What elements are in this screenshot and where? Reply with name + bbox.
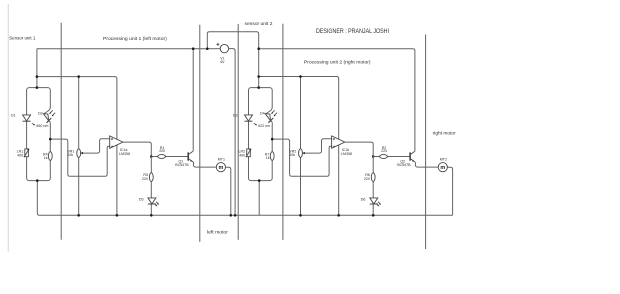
photoresistor LR1 400 bbox=[24, 149, 29, 157]
wire sensor-2 vertical bus bbox=[282, 24, 284, 240]
svg-text:Processing unit 2 (right motor: Processing unit 2 (right motor) bbox=[304, 59, 371, 64]
wire battery - lead to ground bus bbox=[229, 49, 236, 216]
svg-text:10k: 10k bbox=[67, 153, 73, 157]
svg-text:m: m bbox=[219, 165, 224, 171]
wire sensor-1 divider tap to op-amp inverting input bbox=[50, 139, 109, 176]
svg-text:LM358: LM358 bbox=[119, 152, 130, 156]
wire Q1 collector to rail bbox=[192, 49, 194, 51]
wire battery bypass loop bbox=[207, 32, 258, 88]
svg-text:D1: D1 bbox=[11, 114, 16, 118]
resistor R5 220 bbox=[149, 173, 153, 182]
LED D6 bbox=[370, 198, 381, 206]
wire VR1 wiper to op-amp non-inverting input bbox=[84, 139, 110, 153]
op-amp IC1b LM358 bbox=[332, 136, 345, 148]
wire op-amp 1 output bbox=[123, 142, 151, 156]
junction battery + / rail bbox=[206, 47, 209, 50]
photoresistor LR2 400 bbox=[246, 149, 251, 157]
svg-text:400: 400 bbox=[17, 153, 23, 157]
sheet border (left edge) bbox=[7, 4, 9, 252]
potentiometer VR2 10k bbox=[299, 149, 306, 158]
svg-text:Processing unit 1 (left motor): Processing unit 1 (left motor) bbox=[103, 36, 167, 41]
junction MT1 return / ground bus bbox=[230, 214, 233, 217]
sensor unit 2 loop bbox=[249, 88, 273, 181]
wire indicator branch R5-D5 bbox=[150, 157, 152, 216]
svg-text:1k: 1k bbox=[266, 156, 270, 160]
svg-text:BC547B: BC547B bbox=[175, 163, 189, 167]
op-amp IC1a LM358 bbox=[110, 136, 123, 148]
junction VR1 top / rail2 bbox=[77, 75, 80, 78]
svg-text:MT1: MT1 bbox=[218, 157, 225, 161]
junction op-amp1 V- / ground bus bbox=[116, 214, 119, 217]
junction D6 / ground bus bbox=[372, 214, 375, 217]
wire sensor-2 bottom drop to ground bus bbox=[258, 181, 260, 216]
wire processing-2 supply rail and op-amp V+ drop bbox=[259, 77, 339, 216]
junction VR2 top / rail2 bbox=[299, 75, 302, 78]
svg-text:D2: D2 bbox=[38, 112, 43, 116]
svg-text:622 nm: 622 nm bbox=[258, 124, 270, 128]
wire sensor-1 supply drop bbox=[36, 49, 38, 88]
wire left motor terminal B bbox=[237, 24, 239, 240]
svg-text:220: 220 bbox=[159, 149, 165, 153]
wire left motor terminal A bbox=[199, 25, 201, 242]
wire pot VR2 bottom terminal bbox=[300, 157, 302, 215]
LED D5 bbox=[148, 198, 159, 206]
wire op-amp 2 output bbox=[345, 142, 373, 156]
wire VR2 wiper to op-amp non-inverting input bbox=[306, 139, 332, 153]
svg-text:220: 220 bbox=[381, 149, 387, 153]
wire ground bus bbox=[37, 181, 452, 216]
svg-text:left motor: left motor bbox=[207, 229, 228, 234]
wire right motor terminal bbox=[425, 35, 427, 250]
junction battery - / ground bus bbox=[234, 214, 237, 217]
svg-text:Sensor unit 1: Sensor unit 1 bbox=[9, 36, 35, 41]
wire top supply rail (left) bbox=[37, 48, 207, 50]
resistor R6 220 bbox=[371, 173, 375, 182]
junction VR2 bottom / ground bus bbox=[299, 214, 302, 217]
svg-text:LM358: LM358 bbox=[341, 152, 352, 156]
sensor unit 1 loop bbox=[27, 88, 51, 181]
svg-text:right motor: right motor bbox=[433, 131, 456, 136]
wire Q2 collector riser to rail bbox=[259, 49, 415, 152]
motor MT2 bbox=[438, 163, 447, 172]
junction VR1 bottom / ground bus bbox=[77, 214, 80, 217]
resistor R1 220 bbox=[158, 155, 166, 159]
svg-text:DESIGNER : PRANJAL JOSHI: DESIGNER : PRANJAL JOSHI bbox=[316, 28, 389, 35]
arrow to wavelength label D4 bbox=[254, 123, 257, 125]
wire Q1 emitter to motor MT1 bbox=[194, 162, 217, 167]
junction D5 / ground bus bbox=[150, 214, 153, 217]
svg-text:D4: D4 bbox=[260, 112, 265, 116]
svg-text:m: m bbox=[440, 165, 445, 171]
svg-text:D6: D6 bbox=[361, 197, 366, 201]
svg-text:D5: D5 bbox=[139, 197, 144, 201]
photodiode D2 bbox=[42, 108, 55, 126]
junction sensor-2 loop bottom bbox=[258, 179, 261, 182]
junction sensor-1 loop bottom bbox=[36, 179, 39, 182]
resistor R7 1k bbox=[270, 152, 274, 161]
junction sensor-2 divider tap bbox=[271, 138, 274, 141]
svg-text:D3: D3 bbox=[233, 114, 238, 118]
junction op-amp2 V- / ground bus bbox=[337, 214, 340, 217]
svg-text:220: 220 bbox=[142, 177, 148, 181]
junction sensor-2 supply / rail2 bbox=[257, 75, 260, 78]
wire indicator branch R6-D6 bbox=[372, 157, 374, 216]
resistor R4 1k bbox=[48, 152, 52, 161]
wire Q1 collector riser bbox=[192, 51, 194, 151]
svg-text:10k: 10k bbox=[289, 153, 295, 157]
transistor Q1 BC547B bbox=[188, 151, 193, 162]
transistor Q2 BC547B bbox=[410, 151, 415, 162]
node op-amp2 output junction bbox=[372, 155, 375, 158]
svg-text:BC547B: BC547B bbox=[397, 163, 411, 167]
resistor R2 220 bbox=[380, 155, 388, 159]
wire to Q2 base bbox=[373, 156, 410, 158]
svg-text:400: 400 bbox=[239, 153, 245, 157]
wire pot VR2 top terminal bbox=[300, 77, 302, 150]
battery V1 6V bbox=[216, 43, 228, 53]
wire pot VR1 top terminal bbox=[78, 77, 80, 150]
photodiode D4 bbox=[264, 108, 277, 126]
wire to Q1 base bbox=[151, 156, 188, 158]
junction Q1 collector / rail bbox=[192, 47, 195, 50]
arrow to wavelength label D2 bbox=[32, 123, 35, 125]
wire processing-1 supply rail and op-amp V+ drop bbox=[37, 77, 117, 216]
diode D1 bbox=[23, 115, 31, 121]
svg-text:sensor unit 2: sensor unit 2 bbox=[245, 21, 273, 26]
node op-amp1 output junction bbox=[150, 155, 153, 158]
junction sensor-1 supply / rail2 bbox=[36, 75, 39, 78]
svg-text:MT2: MT2 bbox=[440, 157, 447, 161]
junction sensor-2 supply / rail bbox=[257, 47, 260, 50]
junction sensor-1 supply / loop top bbox=[36, 86, 39, 89]
wire battery + lead bbox=[207, 48, 220, 50]
wire sensor-1 vertical bus bbox=[60, 23, 62, 240]
svg-text:650 nm: 650 nm bbox=[36, 124, 48, 128]
svg-text:1k: 1k bbox=[44, 156, 48, 160]
potentiometer VR1 10k bbox=[77, 149, 84, 158]
junction sensor-2 supply / loop top bbox=[257, 86, 260, 89]
wire MT2 return to ground bus bbox=[447, 167, 452, 215]
svg-text:220: 220 bbox=[364, 177, 370, 181]
diode D3 bbox=[245, 115, 253, 121]
junction sensor-1 divider tap bbox=[49, 138, 52, 141]
wire pot VR1 bottom terminal bbox=[78, 157, 80, 215]
wire Q2 emitter to motor MT2 bbox=[415, 162, 438, 167]
wire sensor-2 divider tap to op-amp inverting input bbox=[272, 139, 331, 176]
motor MT1 bbox=[216, 163, 225, 172]
wire MT1 return to ground bus bbox=[226, 167, 231, 215]
